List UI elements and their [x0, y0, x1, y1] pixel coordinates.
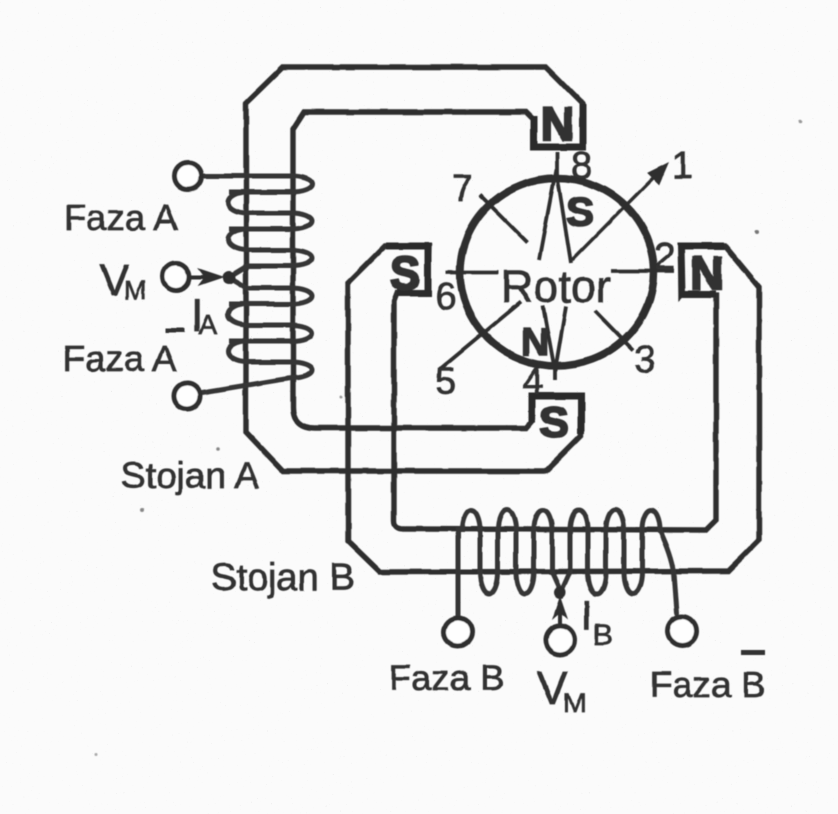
- arrow IA from VM terminal into tap: [190, 269, 235, 285]
- tick 8 (top): [555, 152, 559, 181]
- rotor needle lower half: [543, 306, 566, 371]
- svg-text:B: B: [593, 619, 613, 652]
- svg-text:2: 2: [654, 236, 675, 278]
- tick 3 (SE): [595, 311, 633, 350]
- svg-text:Rotor: Rotor: [501, 261, 611, 312]
- arrow IB from VM terminal into tap: [553, 587, 567, 624]
- svg-text:3: 3: [634, 339, 655, 381]
- svg-text:S: S: [390, 247, 421, 299]
- svg-text:S: S: [539, 398, 568, 447]
- stator core Stojan A (C-core: left limb, top arm to N pole, bottom arm to S pole): [246, 67, 583, 471]
- svg-text:1: 1: [672, 145, 693, 187]
- coil A winding on left limb: [199, 176, 312, 393]
- terminal VM (phase B center tap): [546, 626, 575, 655]
- svg-text:5: 5: [435, 361, 456, 403]
- svg-text:7: 7: [452, 168, 473, 210]
- arrow to position 1: [572, 163, 668, 260]
- svg-text:A: A: [199, 309, 218, 340]
- terminal VM (phase A center tap): [163, 264, 190, 291]
- stator core Stojan B (C-core: bottom limb, left arm to S pole, right arm to N pole): [348, 246, 759, 572]
- tick 2 (E): [611, 269, 674, 273]
- svg-text:Faza A: Faza A: [64, 197, 178, 238]
- pole pocket N (top, Stojan A): [534, 104, 583, 147]
- scan speckles: [755, 230, 759, 234]
- terminal Faza B: [444, 618, 472, 646]
- svg-text:S: S: [566, 188, 594, 235]
- tick 7 (NW): [480, 195, 527, 242]
- svg-text:Faza B: Faza B: [389, 657, 505, 698]
- terminal Faza A-bar: [174, 383, 200, 409]
- terminal Faza A: [175, 163, 202, 190]
- svg-text:Stojan A: Stojan A: [121, 455, 259, 496]
- pole pocket S (bottom, Stojan A): [532, 396, 581, 434]
- rotor circle: [460, 178, 654, 366]
- svg-text:N: N: [521, 321, 549, 364]
- svg-text:M: M: [563, 687, 586, 718]
- svg-text:I: I: [581, 592, 593, 639]
- pole pocket N (right, Stojan B): [681, 246, 724, 294]
- pole pocket S (left, Stojan B): [386, 246, 428, 293]
- tick 6 (W): [446, 271, 499, 275]
- tick 4 (bottom): [553, 361, 557, 380]
- svg-text:M: M: [124, 275, 147, 305]
- svg-text:4: 4: [522, 361, 543, 403]
- terminal Faza B-bar: [668, 617, 697, 646]
- svg-text:N: N: [690, 247, 723, 299]
- tick 5 (SW): [439, 302, 521, 370]
- svg-text:N: N: [541, 98, 574, 150]
- svg-text:Faza A: Faza A: [63, 338, 177, 379]
- rotor needle upper half: [539, 169, 571, 263]
- svg-text:6: 6: [435, 276, 456, 318]
- svg-text:Stojan B: Stojan B: [211, 557, 355, 599]
- svg-text:8: 8: [571, 145, 592, 187]
- svg-text:Faza B: Faza B: [650, 664, 766, 705]
- coil B winding on bottom limb: [458, 510, 677, 618]
